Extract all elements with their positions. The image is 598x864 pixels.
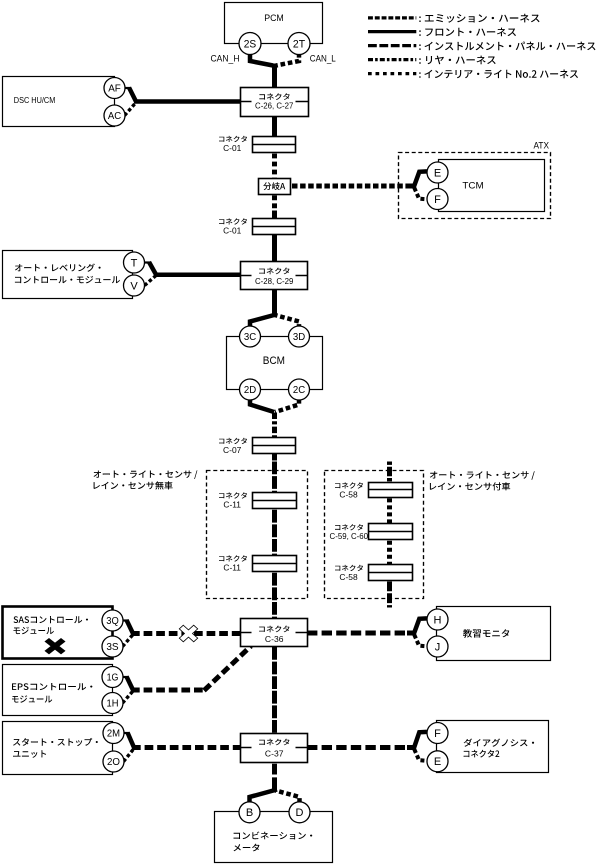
pin AC of DSC: [104, 105, 125, 126]
svg-text:E: E: [434, 756, 441, 768]
wire T stub: [145, 261, 151, 263]
passthrough mark left C-37: [241, 747, 252, 749]
ATX dashed box: [399, 153, 551, 219]
wire T diagonal: [149, 262, 156, 275]
pin 3D of BCM: [289, 326, 310, 347]
svg-text:C-58: C-58: [339, 489, 358, 499]
connector C-01b label katakana: [219, 218, 247, 224]
wire split to 3C solid: [250, 315, 276, 328]
wire 2S to trunk (CAN_H solid): [250, 53, 273, 66]
wire bunkiA to C-01b dashed: [272, 195, 277, 211]
auto leveling label line1: [15, 264, 101, 272]
svg-text:CAN_H: CAN_H: [211, 53, 240, 63]
wire trunk C-36 to C-37 dashed: [272, 647, 277, 735]
connector C-58a label katakana: [335, 482, 363, 488]
combination meter label line1: [234, 832, 313, 840]
EPS control module box: [3, 665, 113, 716]
svg-text:J: J: [435, 641, 441, 653]
wire 3S stub dashed: [123, 635, 134, 647]
connector C-58b divider: [369, 572, 412, 574]
connector C-26 C-27 box: [241, 88, 309, 117]
wire C-58a to C-59 dotted interior: [387, 498, 392, 523]
svg-text:DSC HU/CM: DSC HU/CM: [14, 95, 56, 105]
connector C-36 box: [241, 619, 308, 647]
svg-text:D: D: [296, 807, 304, 819]
pin 3C of BCM: [240, 326, 261, 347]
training monitor label: [463, 629, 509, 638]
svg-text:C-59, C-60: C-59, C-60: [330, 532, 369, 541]
wire trunk C-26 to C-01: [272, 115, 277, 138]
wire below C-58b dashed: [387, 582, 392, 608]
pin 1H of EPS: [102, 693, 123, 714]
pin D of combination meter: [289, 802, 310, 823]
wire 2C to merge dashed: [275, 399, 299, 412]
wire split to B solid: [250, 790, 278, 804]
SAS label line2: [14, 627, 54, 634]
diagnosis label line2: [464, 750, 500, 758]
connector C-07 divider: [253, 445, 296, 447]
wire merge stub diag2: [407, 745, 416, 750]
connector C-01a label katakana: [219, 136, 247, 142]
wire EPS horizontal dashed: [131, 688, 206, 693]
junction bunki-A label: [263, 182, 285, 190]
legend label emission harness: [419, 14, 539, 23]
connector C-37 box: [241, 734, 308, 763]
wire trunk PCM to C-26: [272, 64, 277, 90]
svg-text:C-01: C-01: [223, 143, 241, 153]
combination meter box: [215, 812, 333, 863]
svg-text:AF: AF: [108, 83, 121, 95]
wire 1G stub: [123, 676, 129, 678]
svg-text:C-37: C-37: [265, 749, 284, 759]
pin 2C of BCM: [289, 379, 310, 400]
connector C-58a divider: [369, 489, 412, 491]
connector C-37 label katakana: [259, 739, 289, 746]
svg-text:V: V: [130, 280, 138, 292]
legend line front harness: [368, 30, 416, 33]
connector C-11b label katakana: [219, 555, 247, 561]
pin 2D of BCM: [240, 379, 261, 400]
svg-text:T: T: [131, 257, 138, 269]
wire startstop to C-37 dashed: [132, 745, 242, 750]
connector C-28 label katakana: [259, 268, 289, 275]
svg-text:2T: 2T: [293, 38, 305, 50]
wire 2T to trunk (CAN_L dashed): [276, 53, 299, 66]
wire trunk C-11b to C-36 dashed: [272, 573, 277, 620]
connector C-07 box: [253, 438, 296, 454]
passthrough mark right C-36: [296, 632, 308, 634]
pin H of monitor: [427, 609, 448, 630]
svg-text:3C: 3C: [244, 331, 257, 343]
svg-text:F: F: [434, 728, 441, 740]
wire trunk C-37 down dashed: [272, 764, 277, 779]
connector C-01a box: [253, 137, 296, 153]
svg-text:3Q: 3Q: [106, 615, 119, 627]
connector C-11a box: [253, 493, 297, 509]
wire 2D to merge solid: [250, 399, 274, 412]
connector C-01b divider: [253, 226, 296, 228]
wire to pin F2 solid: [414, 732, 427, 749]
pin AF of DSC: [104, 78, 125, 99]
svg-text:E: E: [434, 167, 441, 179]
pin J of monitor: [427, 636, 448, 657]
svg-text:C-07: C-07: [223, 445, 242, 455]
pin F of diagnosis2: [427, 723, 448, 744]
pin 1G of EPS: [102, 667, 123, 688]
svg-text:2C: 2C: [293, 384, 306, 396]
connector C-28 C-29 box: [241, 262, 308, 290]
svg-text:C-36: C-36: [265, 634, 284, 644]
wire trunk C-01b to C-28: [272, 233, 277, 263]
connector C-36 label katakana: [259, 626, 289, 633]
legend label instrument panel harness: [419, 42, 595, 51]
wire SAS to C-36 dashed: [131, 631, 242, 636]
DSC HU/CM box: [3, 77, 115, 127]
wire to pin J dashed: [414, 635, 427, 647]
svg-text:C-11: C-11: [223, 563, 241, 573]
connector C-58b box: [369, 565, 413, 581]
wire 2M diagonal: [128, 733, 135, 748]
EPS label line1: [12, 683, 92, 690]
junction bunki-A box: [259, 179, 291, 195]
svg-text:TCM: TCM: [462, 181, 483, 191]
connector C-01a divider: [253, 144, 296, 146]
svg-text:3D: 3D: [293, 331, 306, 343]
right option label line2: [430, 482, 510, 490]
legend label rear harness: [419, 56, 496, 65]
right option label line1: [430, 471, 535, 480]
connector C-07 label katakana: [219, 438, 247, 444]
wire 3Q diagonal: [127, 620, 134, 634]
svg-text:BCM: BCM: [263, 355, 285, 367]
wire DSC to C-26 (front harness): [134, 99, 242, 104]
svg-text:C-28, C-29: C-28, C-29: [255, 277, 294, 286]
svg-text:C-26, C-27: C-26, C-27: [255, 102, 294, 111]
svg-text:1H: 1H: [107, 698, 119, 710]
SAS delete X mark (black cross): [44, 638, 65, 654]
pin F of TCM: [427, 189, 448, 210]
wire trunk merge to C-07 dash-dot: [272, 413, 277, 440]
connector C-59 C-60 divider: [369, 531, 412, 533]
diagnosis connector2 box: [437, 721, 549, 773]
wire 1G diagonal: [127, 677, 134, 691]
svg-text:PCM: PCM: [264, 13, 284, 24]
wire trunk C-28 to BCM split: [272, 288, 277, 316]
left option dashed box (no auto light sensor): [207, 471, 308, 599]
legend line instrument panel harness: [368, 44, 416, 47]
svg-text:2M: 2M: [107, 728, 120, 740]
svg-text:3S: 3S: [106, 641, 118, 653]
wire split to 3D dashed: [273, 315, 299, 328]
pin 3Q of SAS: [102, 610, 123, 631]
auto leveling module box: [3, 251, 133, 299]
connector C-26 label katakana: [259, 93, 289, 100]
passthrough mark right C-28: [296, 275, 308, 277]
start stop label line2: [13, 750, 46, 758]
wire cut X mark on SAS harness: [180, 626, 197, 641]
svg-text:CAN_L: CAN_L: [310, 53, 336, 63]
svg-text:2D: 2D: [244, 384, 257, 396]
connector C-01b box: [253, 219, 296, 235]
connector C-59 C-60 box: [369, 524, 413, 540]
connector C-58a box: [369, 483, 413, 498]
combination meter label line2: [234, 844, 260, 852]
connector C-11b divider: [253, 563, 296, 565]
wire to pin H solid: [414, 618, 427, 634]
svg-text:1G: 1G: [107, 672, 119, 684]
connector C-59 label katakana: [335, 524, 363, 530]
wire autolevel to C-28 (front harness): [154, 272, 242, 277]
start stop label line1: [13, 738, 98, 746]
BCM box: [227, 337, 323, 390]
wire merge stub monitor: [407, 631, 416, 636]
connector C-11b box: [253, 556, 297, 572]
svg-text:C-11: C-11: [223, 500, 241, 510]
svg-text:F: F: [434, 194, 441, 206]
wire right branch above C-58a dashed: [387, 462, 392, 484]
PCM box: [225, 3, 323, 44]
legend label front harness: [419, 28, 516, 37]
legend line interior light no2 harness: [368, 72, 416, 75]
svg-text:H: H: [434, 614, 442, 626]
wire trunk to C-11a dashed: [272, 462, 277, 495]
wire 2O stub dashed: [124, 749, 135, 762]
start stop unit box: [3, 722, 113, 775]
right option dashed box (with auto light sensor): [325, 471, 424, 599]
wire trunk C-01 to bunkiA (emission dashed): [272, 154, 277, 178]
passthrough mark left C-26: [241, 101, 252, 103]
wire trunk C-11a to C-11b dashed: [272, 510, 277, 555]
pin 2S of PCM: [239, 33, 261, 55]
legend line emission harness: [368, 16, 416, 19]
wire AF stub: [125, 87, 131, 89]
wire 1H stub dashed: [123, 691, 134, 703]
pin 2M of start stop: [103, 723, 124, 744]
pin 2O of start stop: [103, 751, 124, 772]
TCM box: [439, 160, 545, 212]
connector C-11a label katakana: [219, 492, 247, 498]
svg-text:AC: AC: [108, 110, 122, 122]
wire EPS diagonal to C-36 dashed: [204, 646, 251, 691]
left option label line2: [94, 481, 173, 489]
passthrough mark right C-26: [296, 101, 309, 103]
wire C-36 to monitor dashed: [307, 631, 415, 636]
SAS control module box: [3, 607, 113, 659]
legend line rear harness: [368, 58, 416, 61]
wire trunk C-07 below solid: [272, 453, 277, 461]
wire to pin E2 dashed: [414, 749, 427, 761]
diagnosis label line1: [464, 739, 534, 747]
pin E of diagnosis2: [427, 751, 448, 772]
passthrough mark left C-36: [241, 632, 252, 634]
pin 3S of SAS: [102, 636, 123, 657]
wire bunkiA to C-01b solid tail: [272, 211, 277, 221]
svg-text:2O: 2O: [107, 756, 120, 768]
pin T of auto leveling: [124, 252, 145, 273]
svg-text:C-01: C-01: [223, 226, 241, 236]
pin 2T of PCM: [288, 33, 310, 55]
pin V of auto leveling: [124, 275, 145, 296]
auto leveling label line2: [15, 276, 120, 283]
wire AF diagonal: [129, 88, 136, 102]
passthrough mark right C-37: [296, 747, 308, 749]
wire V stub dashed: [145, 276, 157, 286]
pin E of TCM: [427, 162, 448, 183]
wire to pin E solid: [414, 171, 427, 187]
wire C-59 to C-58b dotted interior: [387, 541, 392, 564]
wire split to D dashed: [272, 790, 300, 804]
pin B of combination meter: [239, 802, 260, 823]
svg-text:B: B: [246, 807, 253, 819]
wire merge stub TCM: [407, 184, 416, 189]
svg-text:ATX: ATX: [534, 141, 550, 151]
EPS label line2: [12, 695, 52, 702]
wire to pin F dashed: [414, 188, 427, 200]
wire bunkiA to TCM dashed: [292, 184, 410, 189]
connector C-11a divider: [253, 500, 296, 502]
wire C-37 to diag2 dashed: [307, 745, 415, 750]
wire trunk solid tail to split: [272, 778, 277, 791]
wire AC stub dashed: [125, 103, 137, 116]
passthrough mark left C-28: [241, 275, 252, 277]
wire 3Q stub: [123, 619, 129, 621]
left option label line1: [94, 470, 198, 479]
SAS label line1: [14, 616, 89, 623]
legend label interior light no2 harness: [419, 70, 578, 79]
training monitor box: [437, 607, 551, 661]
connector C-58b label katakana: [335, 565, 363, 571]
wire 2M stub: [124, 732, 130, 734]
svg-text:2S: 2S: [244, 38, 257, 50]
svg-text:C-58: C-58: [339, 572, 358, 582]
